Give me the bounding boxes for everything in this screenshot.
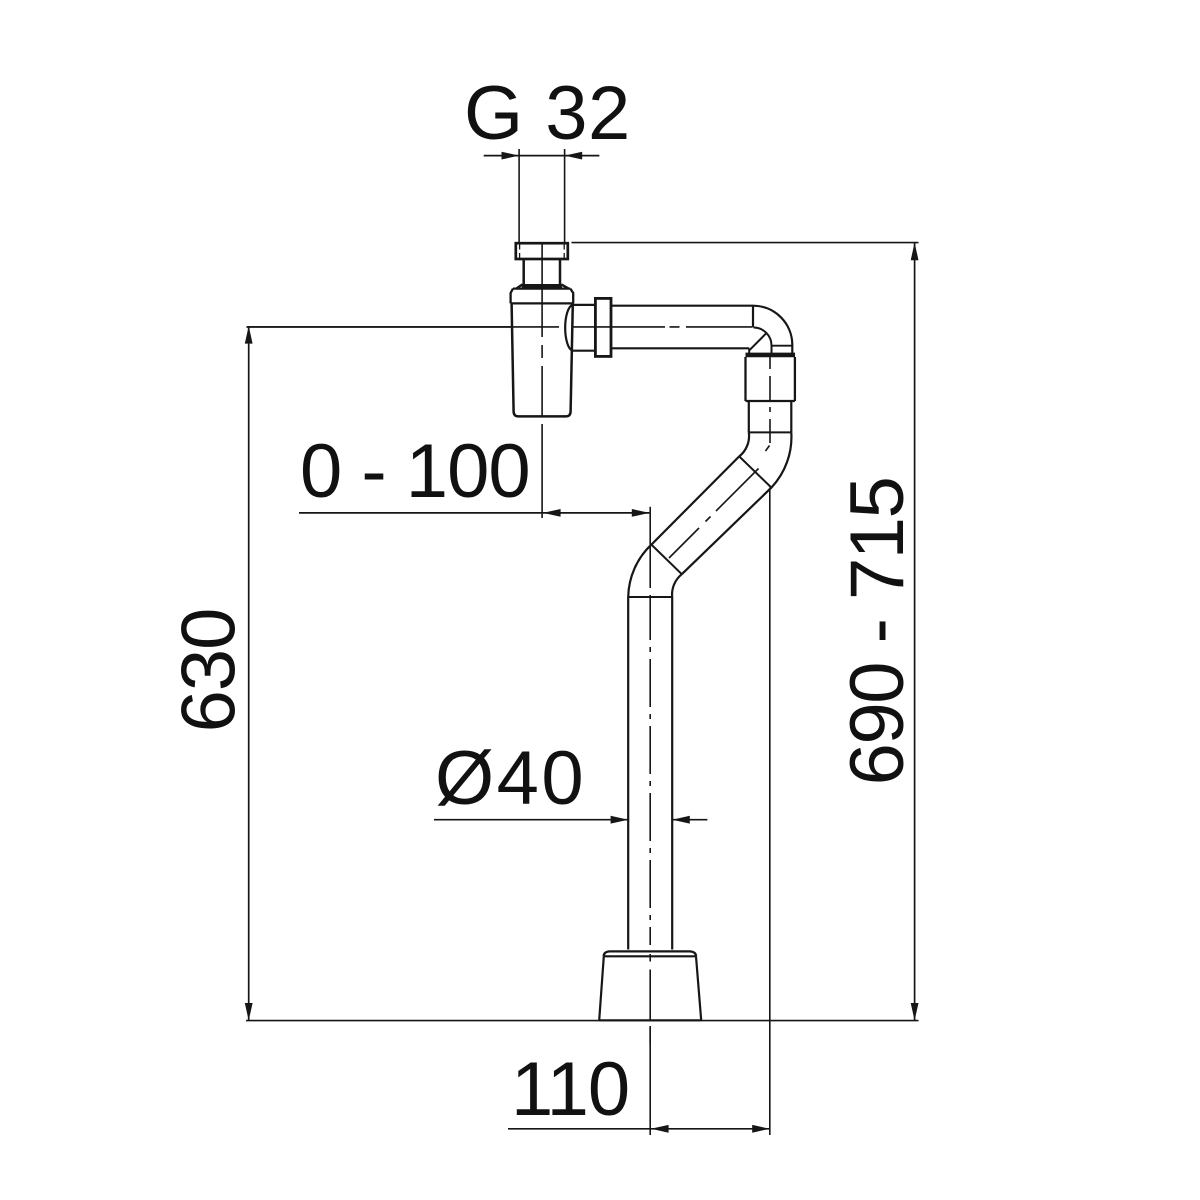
630 extension line — [247, 326, 512, 328]
elbow outer arc — [753, 306, 792, 353]
diagonal pipe — [651, 456, 771, 574]
standpipe — [628, 597, 672, 950]
svg-text:690 - 715: 690 - 715 — [835, 478, 920, 786]
outlet fillet curve — [565, 305, 572, 351]
0-100 extension line right — [649, 507, 651, 588]
G32 dimension line left tail with arrow — [484, 152, 519, 160]
690-715 dimension line — [911, 243, 919, 1021]
coupling body — [746, 357, 795, 401]
elbow miter line — [749, 333, 766, 353]
horizontal centerline through trap and pipe — [247, 326, 753, 328]
outlet stub top and bottom — [572, 305, 596, 351]
upper bend miter line — [739, 456, 771, 487]
Ø40 dimension line with arrows — [434, 816, 707, 824]
G32 extension line right — [564, 149, 566, 243]
flange thread dashes — [520, 245, 565, 259]
0-100 dimension line with arrows — [299, 509, 649, 517]
trap bell collar — [511, 289, 574, 304]
elbow outlet face — [772, 345, 793, 347]
lower bend miter line — [651, 545, 681, 575]
110 dimension line with arrows — [508, 1125, 770, 1133]
630 dimension line — [245, 326, 253, 1021]
trap vertical centerline — [541, 243, 543, 518]
floor extension line — [246, 1020, 919, 1022]
upper bend — [739, 432, 791, 487]
foot tapered body — [599, 956, 701, 1020]
pipe joint line above bend — [749, 431, 792, 433]
lower bend — [628, 545, 682, 597]
elbow joint line — [752, 306, 754, 328]
vertical pipe below coupling — [749, 401, 792, 432]
standpipe joint line — [628, 596, 672, 598]
110 extension line left (standpipe centerline below foot) — [649, 1026, 651, 1135]
G32 extension line left — [518, 149, 520, 243]
diagonal centerline dashes — [669, 446, 770, 559]
svg-text:0 - 100: 0 - 100 — [300, 429, 530, 514]
upper pipe vertical centerline dashes — [769, 357, 771, 443]
trap cup body — [512, 303, 573, 416]
coupling top dark line — [746, 353, 796, 358]
svg-text:Ø40: Ø40 — [435, 736, 586, 821]
tailpiece flange — [516, 243, 568, 259]
G32 dimension line middle — [519, 155, 565, 157]
690-715 top extension line — [572, 242, 919, 244]
horizontal pipe — [611, 306, 753, 349]
svg-text:630: 630 — [167, 609, 252, 733]
svg-text:110: 110 — [511, 1047, 629, 1132]
110 extension line right — [769, 488, 771, 1135]
svg-text:G 32: G 32 — [464, 71, 631, 156]
tailpiece neck — [524, 259, 560, 284]
foot collar — [604, 951, 697, 956]
standpipe centerline dashes — [649, 595, 651, 1044]
slip nut — [595, 298, 611, 356]
elbow inner arc — [754, 328, 772, 354]
G32 dimension line right tail with arrow — [565, 152, 600, 160]
compression joint dark band — [522, 284, 562, 288]
